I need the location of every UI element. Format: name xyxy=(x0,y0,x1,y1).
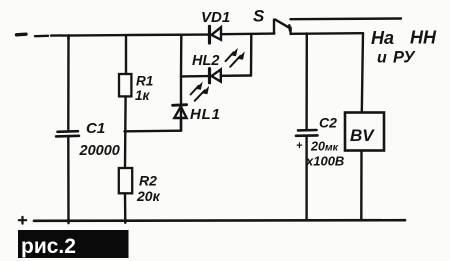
wire HL1 bottom xyxy=(180,119,182,131)
wire C1 bottom xyxy=(67,137,70,223)
wire R1 top xyxy=(125,35,127,74)
svg-text:20к: 20к xyxy=(136,188,161,204)
resistor R2 xyxy=(119,168,132,193)
wire R2 top xyxy=(124,131,127,168)
svg-text:20мк: 20мк xyxy=(310,140,339,154)
switch S xyxy=(274,20,291,34)
plus terminal xyxy=(19,217,26,224)
wire HL2 left xyxy=(181,75,208,78)
wire HL branch top xyxy=(180,35,183,76)
svg-text:рис.2: рис.2 xyxy=(21,235,76,258)
svg-text:х100В: х100В xyxy=(305,154,344,169)
capacitor C1 xyxy=(56,131,79,136)
svg-text:+: + xyxy=(296,140,303,152)
svg-text:C1: C1 xyxy=(86,120,105,137)
svg-text:1к: 1к xyxy=(135,88,151,103)
wire BV bottom xyxy=(360,151,363,220)
wire C1 top xyxy=(67,35,70,129)
svg-text:HL1: HL1 xyxy=(190,106,221,123)
wire top rail dashes xyxy=(35,34,62,37)
svg-text:На: На xyxy=(371,28,394,48)
arrows HL1 xyxy=(191,86,205,101)
svg-text:VD1: VD1 xyxy=(201,9,230,26)
wire HL2 up xyxy=(250,34,253,76)
caption ris.2 xyxy=(18,230,129,258)
wire bottom rail xyxy=(34,219,405,222)
wire top rail mid xyxy=(222,32,274,35)
node C1 top xyxy=(67,35,69,40)
arrows HL2 xyxy=(226,52,241,67)
wire mid connector xyxy=(125,129,182,132)
wire output lower xyxy=(291,32,363,35)
svg-text:R1: R1 xyxy=(136,74,153,89)
svg-text:C2: C2 xyxy=(319,115,337,131)
led HL2 xyxy=(210,69,221,83)
wire C2 top xyxy=(305,34,308,129)
svg-text:S: S xyxy=(253,7,265,26)
svg-text:R2: R2 xyxy=(139,173,157,189)
minus terminal xyxy=(17,33,27,37)
svg-text:HL2: HL2 xyxy=(192,53,219,69)
wire HL1 top xyxy=(180,76,182,130)
svg-text:и: и xyxy=(377,50,387,67)
svg-text:РУ: РУ xyxy=(393,49,416,67)
device BV box xyxy=(345,113,384,151)
led HL1 xyxy=(173,105,187,118)
wire C2 bottom xyxy=(305,137,307,220)
resistor R1 xyxy=(119,74,131,96)
wire R1 bottom xyxy=(124,97,127,132)
svg-text:НН: НН xyxy=(410,28,437,48)
wire output upper (to Na NN) xyxy=(291,17,402,20)
wire to BV top xyxy=(362,33,363,112)
svg-text:20000: 20000 xyxy=(79,143,120,159)
wire R2 bottom xyxy=(124,194,127,223)
svg-text:BV: BV xyxy=(350,126,375,145)
wire HL2 right xyxy=(221,74,251,77)
wire top rail left xyxy=(62,35,208,36)
capacitor C2 xyxy=(296,130,318,136)
diode VD1 xyxy=(210,26,222,43)
